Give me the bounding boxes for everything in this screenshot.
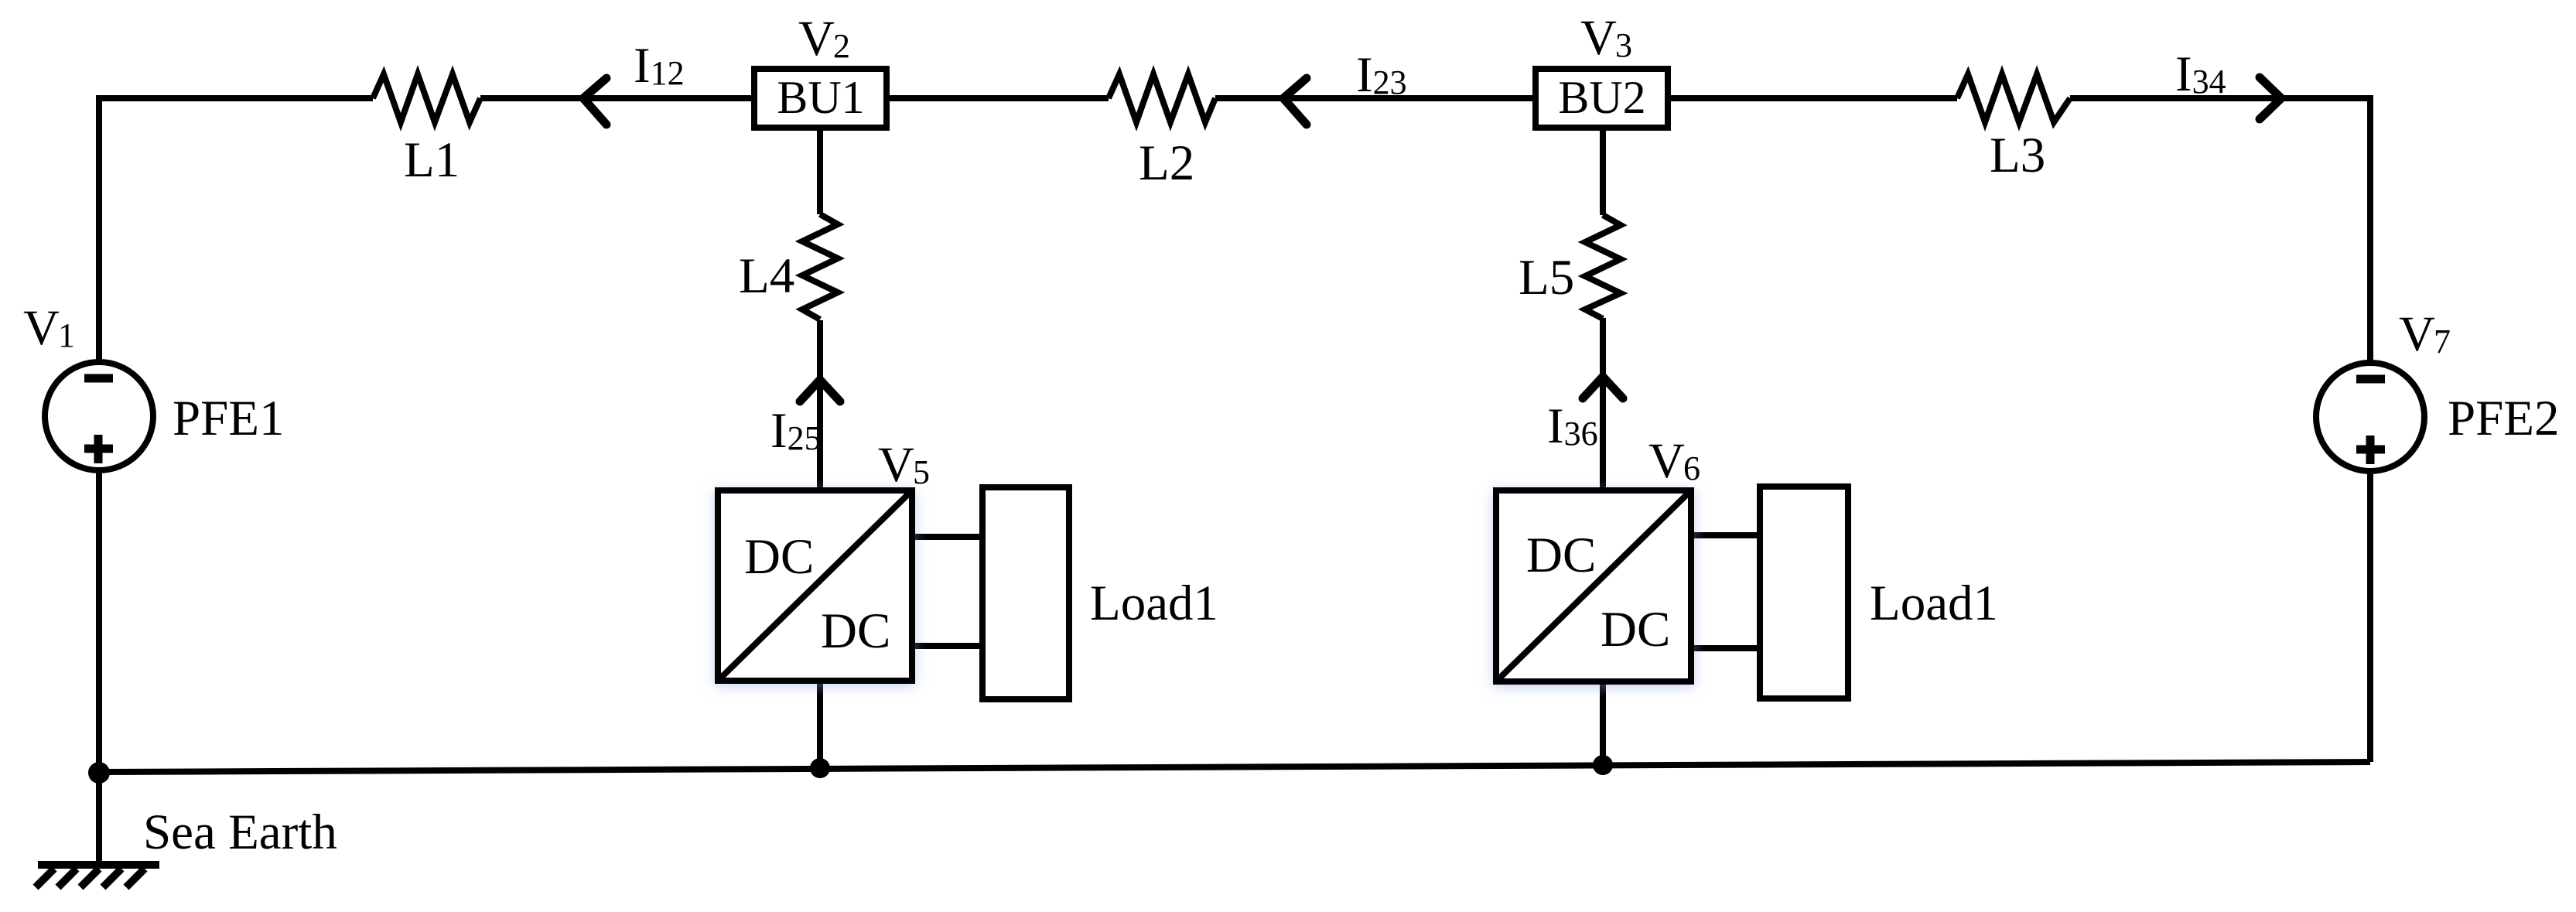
svg-text:DC: DC <box>744 529 814 585</box>
svg-text:I12: I12 <box>634 38 685 94</box>
svg-text:I34: I34 <box>2175 46 2226 102</box>
svg-text:L2: L2 <box>1139 135 1194 191</box>
svg-text:PFE1: PFE1 <box>173 391 285 446</box>
svg-text:I23: I23 <box>1356 47 1407 103</box>
svg-text:V7: V7 <box>2399 306 2451 362</box>
svg-text:BU2: BU2 <box>1558 72 1645 123</box>
svg-text:PFE2: PFE2 <box>2448 391 2560 446</box>
svg-text:L1: L1 <box>404 132 460 188</box>
svg-text:Sea Earth: Sea Earth <box>143 804 337 860</box>
svg-text:I25: I25 <box>770 403 822 459</box>
svg-text:V1: V1 <box>23 300 75 356</box>
svg-text:V2: V2 <box>798 11 850 67</box>
svg-text:BU1: BU1 <box>777 72 864 123</box>
svg-text:DC: DC <box>1526 528 1596 583</box>
svg-text:L3: L3 <box>1990 128 2045 183</box>
svg-text:V3: V3 <box>1580 10 1632 66</box>
svg-text:L5: L5 <box>1519 250 1574 306</box>
svg-text:V5: V5 <box>878 437 930 493</box>
svg-text:V6: V6 <box>1648 433 1700 489</box>
svg-text:Load1: Load1 <box>1090 576 1218 631</box>
svg-text:DC: DC <box>821 603 890 659</box>
svg-text:I36: I36 <box>1547 398 1598 454</box>
svg-text:DC: DC <box>1601 602 1670 658</box>
svg-text:L4: L4 <box>739 248 794 304</box>
svg-text:Load1: Load1 <box>1870 576 1998 631</box>
